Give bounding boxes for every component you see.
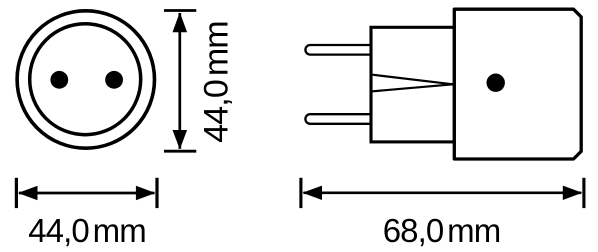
front view width dimension right tick [155, 178, 158, 208]
housing dot [487, 74, 505, 92]
vertical dimension top tick [164, 9, 196, 12]
svg-text:68,0 mm: 68,0 mm [383, 212, 501, 249]
side view length dimension left tick [299, 178, 302, 208]
front view width arrow left [18, 186, 38, 200]
svg-text:44,0 mm: 44,0 mm [198, 21, 236, 142]
outer circle (front view body) [17, 11, 154, 148]
big block (adapter housing) [454, 9, 581, 159]
bottom pin [305, 114, 371, 124]
top pin [305, 45, 371, 55]
wedge lower line [373, 84, 454, 91]
middle block (plug body) [371, 27, 454, 142]
svg-text:44,0 mm: 44,0 mm [28, 212, 146, 249]
inner circle (socket recess) [30, 24, 141, 135]
front view width arrow right [136, 186, 156, 200]
vertical dimension bottom tick [164, 150, 196, 153]
vertical dimension line [178, 13, 181, 149]
vertical dimension arrow down [173, 130, 188, 149]
front view width dimension left tick [15, 178, 18, 208]
right pin hole dot [105, 71, 123, 89]
wedge upper line [373, 75, 454, 85]
vertical dimension arrow up [173, 12, 188, 32]
front view width dimension line [19, 192, 154, 195]
left pin hole dot [50, 71, 68, 89]
side view length dimension line [304, 191, 582, 194]
side view length dimension right tick [582, 178, 585, 208]
side view length arrow right [563, 186, 583, 200]
side view length arrow left [302, 186, 322, 200]
